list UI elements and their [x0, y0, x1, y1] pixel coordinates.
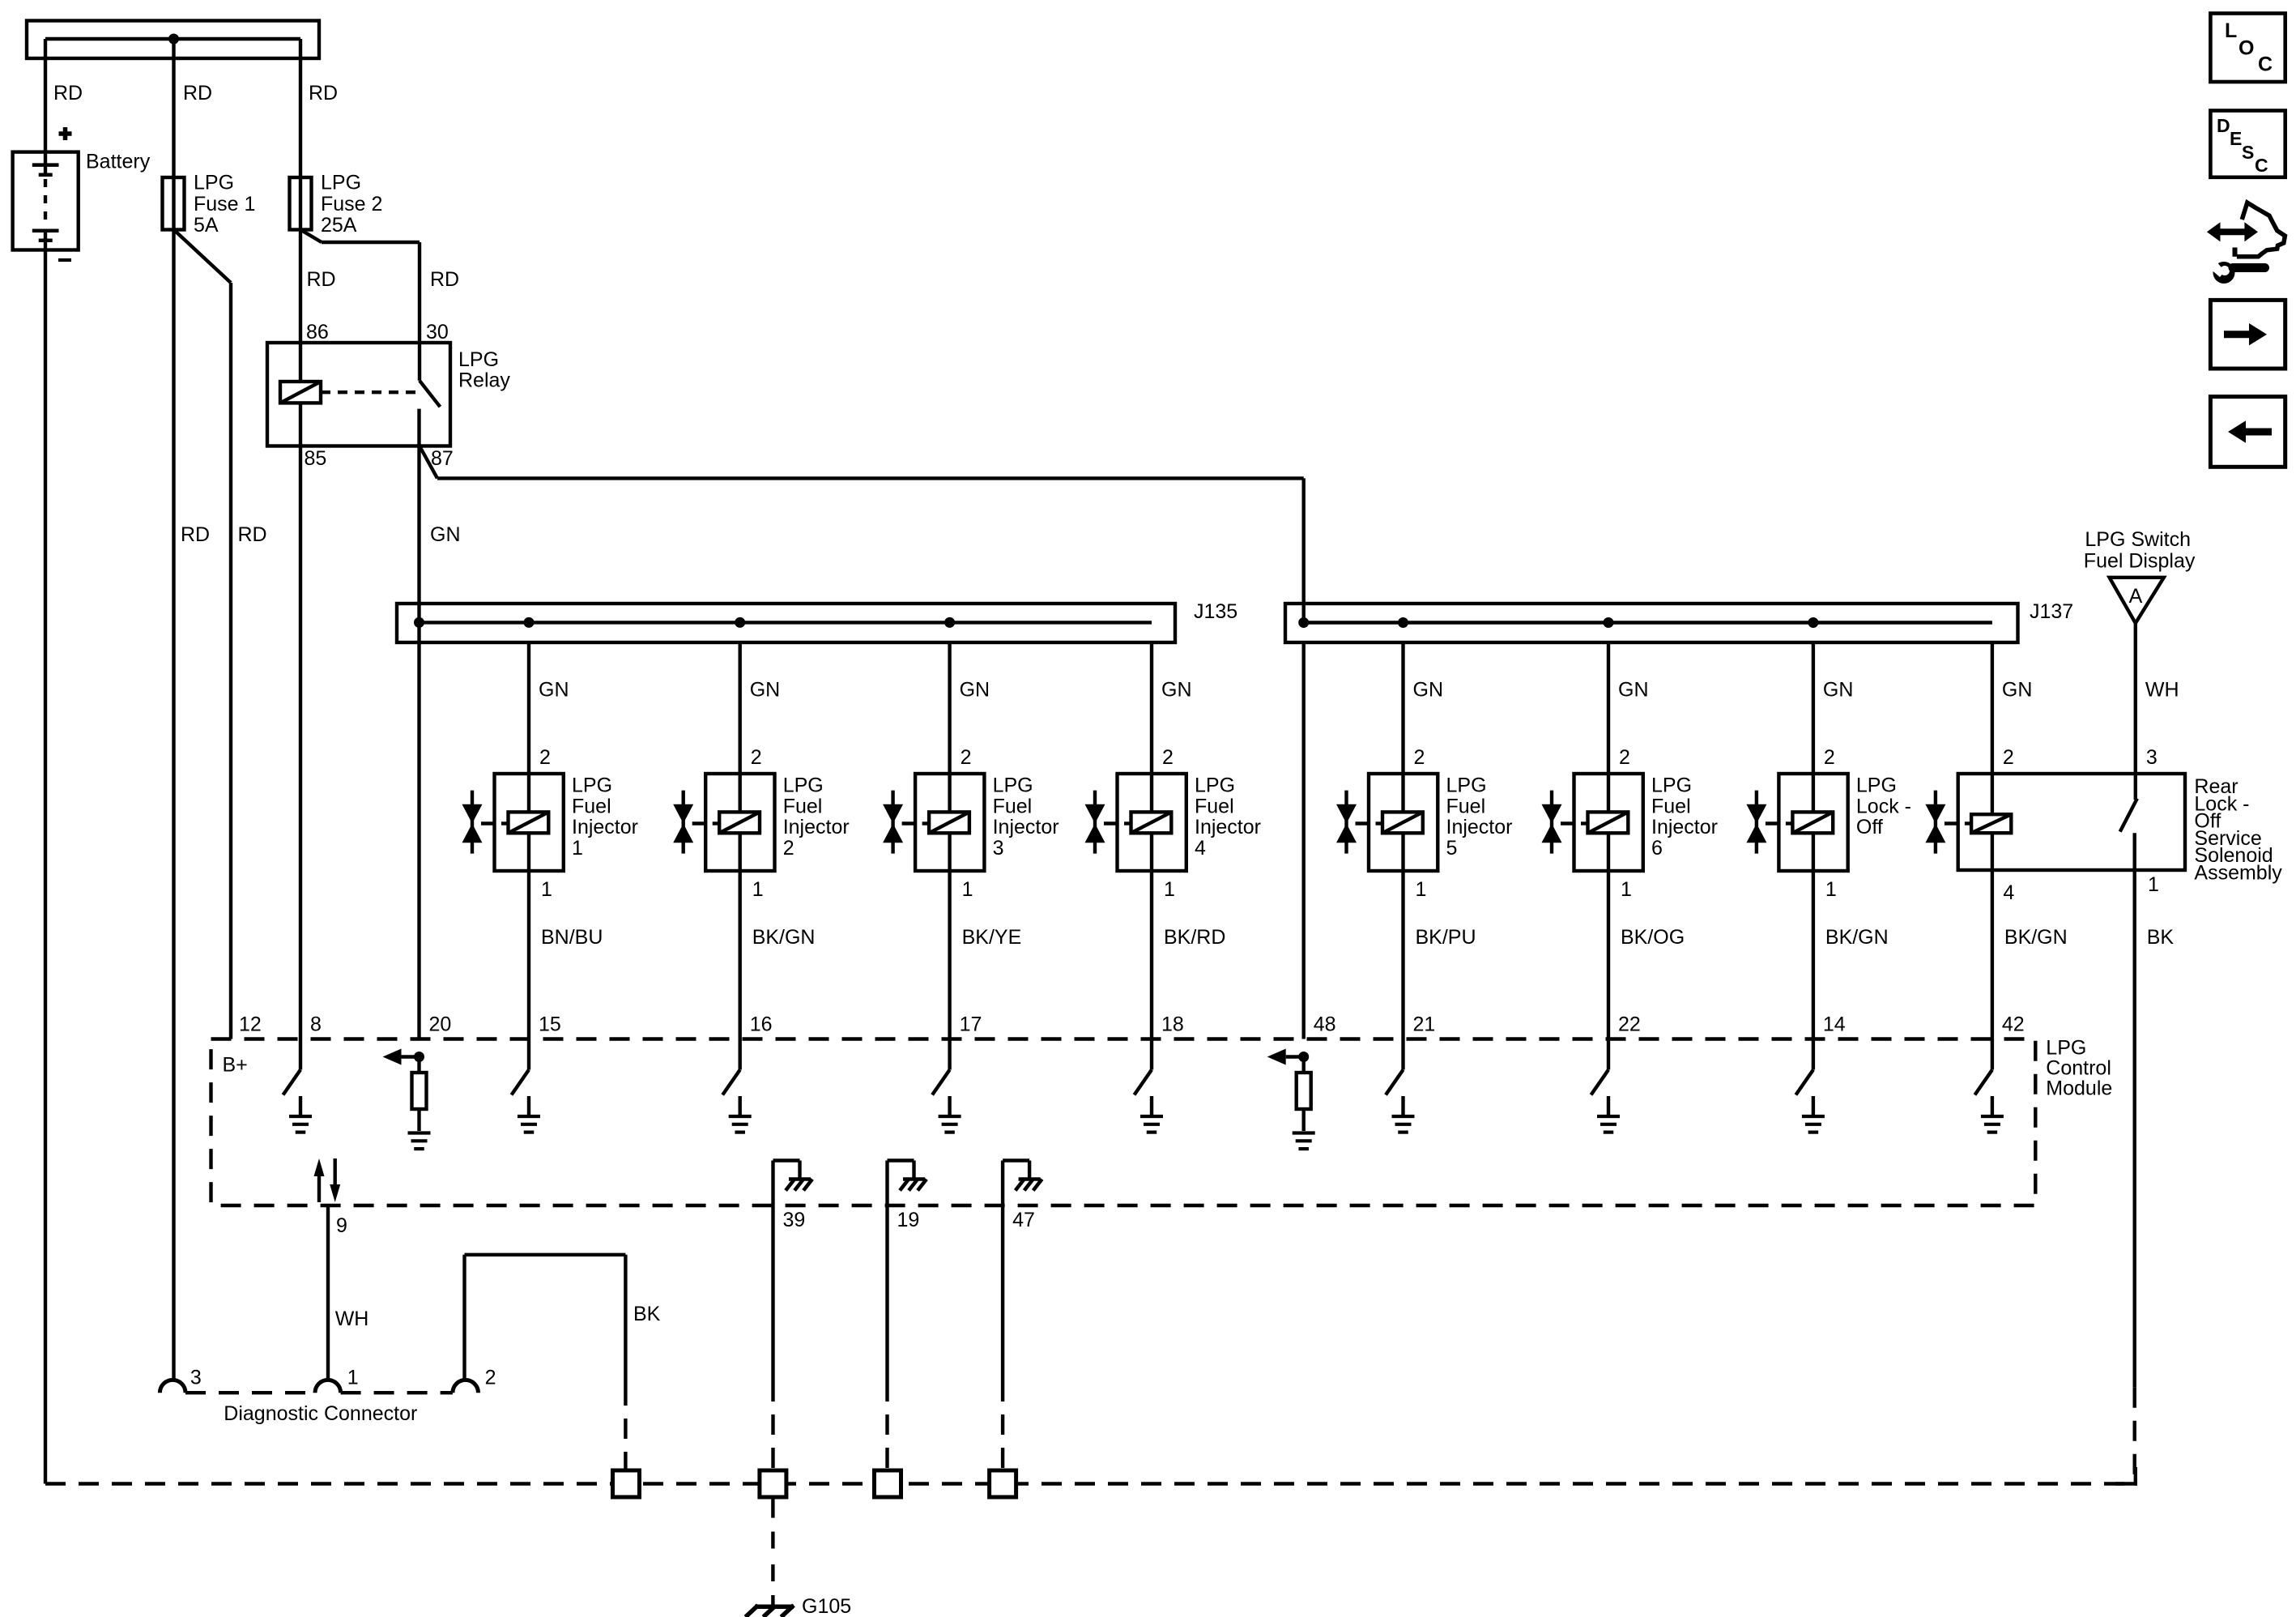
injector LPG Fuel Injector 1 valve symbol: [471, 791, 474, 854]
icon vehicle data link: [2237, 203, 2285, 257]
svg-text:GN: GN: [430, 523, 461, 546]
svg-text:Injector: Injector: [1651, 816, 1718, 838]
injector LPG Fuel Injector 4 coil: [1131, 812, 1172, 833]
icon forward arrow box: [2210, 300, 2285, 369]
svg-text:85: 85: [305, 447, 327, 470]
relay LPG Relay body: [267, 343, 450, 446]
svg-text:5: 5: [1446, 837, 1458, 860]
svg-text:9: 9: [336, 1214, 347, 1237]
svg-text:87: 87: [431, 447, 454, 470]
svg-text:30: 30: [426, 321, 449, 343]
svg-text:LPG: LPG: [1856, 774, 1897, 797]
solenoid Rear Lock-Off Service Solenoid Assembly body: [1958, 774, 2185, 870]
svg-text:LPG: LPG: [2046, 1037, 2086, 1060]
svg-text:G105: G105: [802, 1595, 851, 1617]
svg-text:Injector: Injector: [1195, 816, 1261, 838]
relay coil: [280, 382, 321, 403]
svg-text:LPG: LPG: [194, 172, 234, 194]
module pin 22 switch to ground: [1607, 1039, 1610, 1070]
svg-text:Lock -: Lock -: [1856, 795, 1911, 817]
svg-text:2: 2: [485, 1367, 496, 1389]
module pin 20 resistor: [417, 1057, 420, 1073]
icon DESC box: [2210, 111, 2285, 177]
svg-text:42: 42: [2002, 1013, 2025, 1036]
wire injector 3 to module pin 17: [948, 871, 951, 1039]
svg-text:21: 21: [1413, 1013, 1436, 1036]
junction bus J135: [397, 604, 1175, 642]
svg-text:39: 39: [783, 1209, 806, 1231]
module pin 14 switch to ground: [1812, 1039, 1815, 1070]
injector LPG Fuel Injector 3 body: [915, 774, 984, 871]
svg-text:Fuse 1: Fuse 1: [194, 193, 255, 215]
junction dot J137 lock-off: [1808, 617, 1818, 628]
module pin 39 wire to ground splice: [771, 1205, 774, 1381]
module pin 42 switch to ground: [1991, 1039, 1994, 1070]
svg-text:12: 12: [239, 1013, 262, 1036]
svg-text:LPG: LPG: [321, 172, 361, 194]
ground G105: [755, 1605, 794, 1610]
wire relay pin 87 GN down: [417, 446, 420, 1039]
module pin 48 ground: [1293, 1131, 1315, 1134]
injector LPG Fuel Injector 2 pin 2 wire: [739, 642, 742, 774]
svg-text:BK/RD: BK/RD: [1164, 926, 1225, 949]
wire injector 5 to module pin 21: [1401, 871, 1404, 1039]
injector LPG Fuel Injector 3 pin 2 wire: [948, 642, 951, 774]
svg-text:Relay: Relay: [458, 369, 510, 392]
icon LOC box: [2210, 14, 2285, 83]
svg-text:GN: GN: [1161, 679, 1192, 702]
svg-text:BK/GN: BK/GN: [2004, 926, 2068, 949]
svg-text:A: A: [2129, 585, 2143, 608]
svg-text:2: 2: [751, 746, 762, 769]
wire relay pin 30 RD: [418, 242, 421, 343]
svg-text:GN: GN: [539, 679, 569, 702]
ground splice square pin 19: [875, 1470, 901, 1497]
svg-text:GN: GN: [750, 679, 781, 702]
injector LPG Fuel Injector 6 pin 2 wire: [1607, 642, 1610, 774]
svg-text:Injector: Injector: [572, 816, 638, 838]
svg-text:25A: 25A: [321, 214, 357, 237]
svg-text:C: C: [2255, 155, 2268, 176]
wire splice to G105: [771, 1497, 774, 1518]
svg-text:O: O: [2238, 37, 2254, 60]
svg-text:S: S: [2242, 142, 2254, 163]
junction dot J137 feed: [1298, 617, 1309, 628]
svg-text:2: 2: [2003, 746, 2014, 769]
svg-text:RD: RD: [238, 523, 267, 546]
svg-text:RD: RD: [183, 82, 212, 105]
svg-text:LPG: LPG: [993, 774, 1033, 797]
svg-text:Off: Off: [1856, 816, 1883, 838]
svg-text:Diagnostic Connector: Diagnostic Connector: [224, 1402, 417, 1425]
svg-text:1: 1: [347, 1367, 359, 1389]
injector LPG Fuel Injector 1 pin 2 wire: [527, 642, 530, 774]
svg-text:RD: RD: [181, 523, 210, 546]
injector LPG Fuel Injector 4 valve symbol: [1093, 791, 1097, 854]
svg-text:2: 2: [1414, 746, 1425, 769]
module pin 20 driver arrow: [402, 1055, 420, 1058]
wire battery negative dashed ground run: [45, 1482, 2136, 1485]
svg-text:Fuel Display: Fuel Display: [2084, 549, 2196, 572]
wire module pin 12 feed RD: [229, 283, 232, 1039]
svg-text:Fuel: Fuel: [1195, 795, 1234, 817]
svg-text:BN/BU: BN/BU: [541, 926, 603, 949]
svg-text:BK: BK: [633, 1303, 661, 1325]
svg-text:17: 17: [960, 1013, 982, 1036]
module pin 19 wire to ground splice: [885, 1205, 888, 1381]
bus J137 inner wire: [1304, 621, 1992, 624]
svg-text:BK/GN: BK/GN: [1825, 926, 1889, 949]
wire battery negative: [44, 241, 47, 250]
svg-text:22: 22: [1618, 1013, 1641, 1036]
svg-text:Fuel: Fuel: [783, 795, 823, 817]
svg-text:Fuel: Fuel: [1651, 795, 1691, 817]
svg-text:15: 15: [539, 1013, 561, 1036]
icon back arrow box: [2210, 397, 2285, 467]
svg-text:BK/PU: BK/PU: [1416, 926, 1476, 949]
module pin 47 internal ground: [1001, 1161, 1004, 1206]
svg-text:1: 1: [752, 878, 764, 901]
svg-text:RD: RD: [307, 268, 336, 291]
bus J135 inner wire: [420, 621, 1152, 624]
svg-text:18: 18: [1161, 1013, 1184, 1036]
svg-text:Fuse 2: Fuse 2: [321, 193, 382, 215]
svg-text:2: 2: [783, 837, 794, 860]
svg-text:LPG: LPG: [783, 774, 824, 797]
junction dot J135 injector 3: [944, 617, 955, 628]
wire bus J137 feed to module pin 48: [1301, 642, 1305, 1039]
module pin 16 switch to ground: [739, 1039, 742, 1070]
injector LPG Fuel Injector 2 body: [705, 774, 774, 871]
svg-text:19: 19: [897, 1209, 920, 1231]
module pin 8 switch to ground: [299, 1039, 302, 1070]
svg-text:Control: Control: [2046, 1057, 2111, 1080]
injector LPG Fuel Injector 5 body: [1369, 774, 1438, 871]
module pin 20 ground: [408, 1131, 431, 1134]
module pin 39 internal ground: [771, 1161, 774, 1206]
injector LPG Fuel Injector 5 coil: [1382, 812, 1423, 833]
wire solenoid pin 4 BK/GN to module pin 42: [1991, 870, 1994, 1039]
svg-text:1: 1: [572, 837, 583, 860]
injector LPG Fuel Injector 5 valve symbol: [1344, 791, 1348, 854]
svg-text:Fuel: Fuel: [572, 795, 611, 817]
wire fuse2 to relay pin 86 RD: [299, 230, 302, 343]
wire relay pin 85 to module pin 8: [299, 446, 302, 1039]
svg-text:48: 48: [1314, 1013, 1336, 1036]
module pin 17 switch to ground: [948, 1039, 951, 1070]
wire display to solenoid pin 3 WH: [2134, 623, 2137, 774]
svg-text:1: 1: [2148, 873, 2159, 896]
svg-text:D: D: [2217, 115, 2230, 136]
icon wrench: [2209, 262, 2235, 284]
svg-text:E: E: [2230, 128, 2242, 149]
svg-text:Fuel: Fuel: [1446, 795, 1486, 817]
wire solenoid pin 1 BK: [2132, 870, 2136, 1388]
wire module pin 9 WH to diagnostic pin 1: [326, 1205, 330, 1380]
svg-text:86: 86: [306, 321, 329, 343]
injector LPG Fuel Injector 3 coil: [929, 812, 969, 833]
svg-text:LPG: LPG: [1446, 774, 1487, 797]
battery symbol: [13, 152, 79, 250]
wire fuse2 feed RD: [299, 39, 302, 177]
svg-text:Injector: Injector: [993, 816, 1059, 838]
connector Diagnostic Connector: [160, 1380, 185, 1393]
svg-text:2: 2: [539, 746, 551, 769]
wire injector 4 to module pin 18: [1150, 871, 1153, 1039]
svg-text:Fuel: Fuel: [993, 795, 1033, 817]
wire injector 2 to module pin 16: [739, 871, 742, 1039]
svg-text:1: 1: [1416, 878, 1427, 901]
injector LPG Fuel Injector 6 body: [1574, 774, 1643, 871]
junction bus J137: [1285, 604, 2018, 642]
svg-text:1: 1: [1621, 878, 1632, 901]
ground splice square G105: [760, 1470, 786, 1497]
injector LPG Fuel Injector 6 valve symbol: [1550, 791, 1553, 854]
wire fuse2 jog to relay pin 30: [300, 230, 322, 243]
svg-text:Battery: Battery: [86, 151, 151, 173]
svg-text:14: 14: [1823, 1013, 1846, 1036]
svg-text:LPG: LPG: [1651, 774, 1692, 797]
module pin 47 wire to ground splice: [1001, 1205, 1004, 1381]
ground splice square pin 47: [990, 1470, 1016, 1497]
svg-text:Assembly: Assembly: [2194, 862, 2282, 885]
wire injector 6 to module pin 22: [1607, 871, 1610, 1039]
svg-text:LPG: LPG: [458, 348, 499, 371]
junction dot J137 injector 5: [1398, 617, 1408, 628]
power bus bar: [27, 21, 319, 59]
svg-text:RD: RD: [430, 268, 459, 291]
wire fuse1 feed RD: [172, 39, 175, 177]
module LPG Control Module box: [211, 1039, 2036, 1206]
svg-text:Injector: Injector: [783, 816, 850, 838]
svg-text:Module: Module: [2046, 1077, 2112, 1100]
wire relay pin 87 jog to J137: [420, 446, 437, 479]
svg-text:C: C: [2258, 53, 2273, 76]
battery minus sign: [58, 258, 71, 262]
wire fuse1 to diagnostic connector: [172, 230, 175, 1380]
module pin 48 resistor: [1301, 1057, 1305, 1073]
wire fuse1 to module B+ jog: [174, 230, 232, 284]
svg-text:GN: GN: [960, 679, 990, 702]
svg-text:2: 2: [1162, 746, 1174, 769]
solenoid LPG Lock-Off pin 2 wire: [1812, 642, 1815, 774]
svg-text:47: 47: [1012, 1209, 1035, 1231]
injector LPG Fuel Injector 2 coil: [719, 812, 760, 833]
relay coil-switch link: [321, 390, 420, 394]
svg-text:1: 1: [962, 878, 973, 901]
injector LPG Fuel Injector 1 body: [495, 774, 564, 871]
injector LPG Fuel Injector 4 pin 2 wire: [1150, 642, 1153, 774]
solenoid assembly valve symbol: [1934, 791, 1937, 854]
module pin 21 switch to ground: [1401, 1039, 1404, 1070]
fuse LPG Fuse 1: [163, 177, 185, 230]
junction dot J135 injector 1: [524, 617, 535, 628]
solenoid assembly switch: [2134, 774, 2137, 800]
wire BK to ground splice: [624, 1385, 627, 1470]
wire lock-off to module pin 14: [1812, 871, 1815, 1039]
svg-text:3: 3: [190, 1367, 202, 1389]
junction dot fuse 1 tap: [168, 34, 179, 45]
injector LPG Fuel Injector 5 pin 2 wire: [1401, 642, 1404, 774]
svg-text:LPG: LPG: [572, 774, 612, 797]
svg-text:3: 3: [993, 837, 1004, 860]
svg-text:20: 20: [429, 1013, 452, 1036]
svg-text:WH: WH: [335, 1308, 369, 1330]
injector LPG Fuel Injector 2 valve symbol: [682, 791, 685, 854]
solenoid LPG Lock-Off valve symbol: [1755, 791, 1758, 854]
svg-text:RD: RD: [53, 82, 83, 105]
solenoid LPG Lock-Off body: [1778, 774, 1847, 871]
svg-text:1: 1: [1825, 878, 1837, 901]
svg-text:BK: BK: [2147, 926, 2175, 949]
fuse LPG Fuse 2: [290, 177, 312, 230]
svg-text:2: 2: [961, 746, 972, 769]
icon double arrow: [2218, 228, 2247, 235]
module pin 18 switch to ground: [1150, 1039, 1153, 1070]
svg-text:RD: RD: [309, 82, 338, 105]
junction dot J135 injector 2: [735, 617, 745, 628]
svg-text:2: 2: [1824, 746, 1835, 769]
injector LPG Fuel Injector 6 coil: [1588, 812, 1629, 833]
svg-text:GN: GN: [1413, 679, 1444, 702]
svg-text:1: 1: [1164, 878, 1175, 901]
svg-text:B+: B+: [223, 1054, 248, 1077]
svg-text:4: 4: [2003, 881, 2014, 904]
svg-text:5A: 5A: [194, 214, 219, 237]
injector LPG Fuel Injector 1 coil: [509, 812, 549, 833]
svg-text:6: 6: [1651, 837, 1663, 860]
svg-text:BK/YE: BK/YE: [962, 926, 1022, 949]
wire injector 1 to module pin 15: [527, 871, 530, 1039]
svg-text:LPG Switch: LPG Switch: [2085, 528, 2191, 551]
svg-text:4: 4: [1195, 837, 1206, 860]
injector LPG Fuel Injector 3 valve symbol: [891, 791, 894, 854]
solenoid assembly coil: [1971, 814, 2011, 833]
ground splice square BK: [613, 1470, 640, 1497]
battery plus sign: [59, 131, 72, 136]
svg-text:J137: J137: [2030, 600, 2073, 623]
wire diagnostic pin 2 loop to BK: [462, 1255, 466, 1380]
injector LPG Fuel Injector 4 body: [1118, 774, 1186, 871]
svg-text:8: 8: [310, 1013, 322, 1036]
svg-text:BK/GN: BK/GN: [752, 926, 816, 949]
svg-text:GN: GN: [2002, 679, 2033, 702]
module pin 9 data arrows: [317, 1176, 321, 1202]
svg-text:L: L: [2225, 19, 2237, 42]
module pin 19 internal ground: [885, 1161, 888, 1206]
svg-text:16: 16: [750, 1013, 773, 1036]
svg-text:BK/OG: BK/OG: [1621, 926, 1685, 949]
solenoid LPG Lock-Off coil: [1792, 812, 1833, 833]
svg-text:GN: GN: [1823, 679, 1854, 702]
svg-text:2: 2: [1619, 746, 1630, 769]
svg-text:3: 3: [2146, 746, 2158, 769]
solenoid assembly pin 2 wire GN: [1991, 642, 1994, 774]
junction dot J137 injector 6: [1604, 617, 1614, 628]
svg-text:Injector: Injector: [1446, 816, 1513, 838]
svg-text:GN: GN: [1618, 679, 1649, 702]
junction dot J135 GN feed: [414, 617, 424, 628]
svg-text:1: 1: [541, 878, 552, 901]
svg-text:J135: J135: [1194, 600, 1237, 623]
svg-text:WH: WH: [2145, 679, 2179, 702]
module pin 48 driver arrow: [1286, 1055, 1304, 1058]
relay switch: [418, 343, 421, 381]
module pin 15 switch to ground: [527, 1039, 530, 1070]
wire battery positive RD: [44, 39, 47, 165]
svg-text:LPG: LPG: [1195, 774, 1235, 797]
